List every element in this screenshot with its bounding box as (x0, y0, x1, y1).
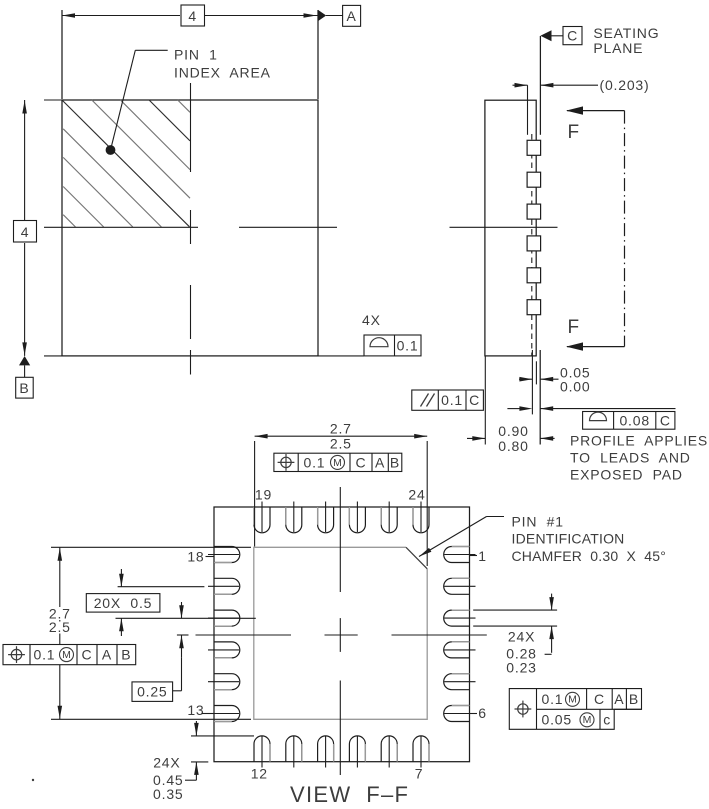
svg-text:A: A (375, 454, 385, 470)
parallelism frame // 0.1 C (412, 390, 484, 410)
datum B flag: triangle + box (19, 356, 30, 365)
svg-text:0.1: 0.1 (397, 338, 419, 354)
pin number 1 with leader (470, 555, 477, 557)
section line F-F dash-dot (624, 111, 626, 347)
profile tolerance frame dome 0.08 C (583, 412, 675, 430)
dimension 2.7/2.5 left: extension lines (51, 546, 251, 548)
bottom view package outline (214, 507, 470, 762)
pin number 6 with leader (470, 713, 477, 715)
pin 1 leader line (111, 50, 136, 150)
svg-text:24X: 24X (508, 629, 535, 645)
top view package body outline (62, 100, 318, 356)
top view: extension line right (317, 10, 319, 99)
svg-text:20X 0.5: 20X 0.5 (94, 595, 153, 611)
svg-text:INDEX AREA: INDEX AREA (174, 65, 271, 81)
svg-text:2.7: 2.7 (330, 421, 352, 437)
svg-text:2.5: 2.5 (330, 436, 352, 452)
dimension 0.25 box (132, 682, 173, 702)
svg-text:TO LEADS AND: TO LEADS AND (570, 450, 691, 466)
svg-text:B: B (629, 691, 639, 707)
stray dot (32, 779, 34, 781)
svg-text:0.1: 0.1 (542, 691, 564, 707)
dimension 0.05/0.00 standoff (519, 378, 532, 380)
svg-text:IDENTIFICATION: IDENTIFICATION (512, 531, 625, 547)
svg-text:0.90: 0.90 (498, 423, 528, 439)
seating plane line lower segment (539, 350, 541, 445)
left dimension 4 box (14, 221, 37, 243)
left dimension 4: extension lines (44, 99, 62, 101)
top view vertical center line (190, 83, 192, 172)
svg-text:24X: 24X (153, 755, 180, 771)
4X profile feature frame (dome 0.1) (364, 335, 421, 356)
svg-text:M: M (333, 457, 342, 469)
svg-text:M: M (583, 714, 592, 726)
bottom edge extension line for 4X callout (318, 355, 364, 357)
svg-text:PROFILE APPLIES: PROFILE APPLIES (570, 433, 708, 449)
svg-text:PLANE: PLANE (593, 40, 643, 56)
svg-text:A: A (614, 691, 624, 707)
svg-text:0.25: 0.25 (137, 683, 167, 699)
svg-text:EXPOSED PAD: EXPOSED PAD (570, 467, 683, 483)
short center tick between faces (535, 361, 537, 384)
svg-text:0.1: 0.1 (441, 392, 463, 408)
top view: extension line left (datum dim 4) (61, 10, 63, 99)
svg-text:7: 7 (415, 766, 424, 782)
pin 1 chamfer edge (406, 547, 427, 569)
svg-text:SEATING: SEATING (593, 25, 659, 41)
bottom row terminals pins 12-7 (254, 736, 270, 762)
svg-text:C: C (660, 412, 671, 428)
side view hidden dashed line (lead plane) (531, 134, 533, 356)
svg-text:B: B (19, 380, 29, 396)
svg-text:4X: 4X (362, 312, 381, 328)
dimension 0.90/0.80 overall thickness (467, 437, 485, 439)
dimension 4 (horizontal width) line with arrows (62, 15, 180, 17)
dimension (0.203) (513, 84, 528, 86)
svg-text:B: B (121, 647, 131, 663)
top row terminals pins 19-24 (254, 507, 270, 533)
datum C flag: triangle + leader + box + SEATING PLANE text (540, 30, 551, 41)
svg-text:0.1: 0.1 (304, 454, 326, 470)
svg-text:0.00: 0.00 (560, 379, 590, 395)
dimension 0.25: arrows and leader (181, 602, 183, 618)
svg-text:0.80: 0.80 (498, 438, 528, 454)
section arrow F lower (567, 346, 625, 348)
svg-text:(0.203): (0.203) (600, 77, 650, 93)
left dimension 4: dimension line and arrows (24, 100, 26, 220)
dimension 20X 0.5 pitch: reference lines and arrows (118, 586, 205, 588)
dimension 2.7/2.5 left: line, arrows, text (59, 547, 61, 719)
svg-text:1: 1 (478, 548, 487, 564)
svg-text:B: B (390, 454, 400, 470)
svg-text:F: F (568, 317, 580, 338)
lead bottom face extension line (531, 350, 533, 414)
svg-text:2.5: 2.5 (49, 619, 71, 635)
svg-text:4: 4 (21, 224, 30, 240)
seating plane line upper segment (539, 36, 541, 135)
svg-text:A: A (102, 647, 112, 663)
svg-text:18: 18 (187, 549, 204, 565)
svg-text:A: A (347, 8, 357, 24)
svg-text:M: M (568, 694, 577, 706)
exposed pad outline with pin1 chamfer (254, 547, 427, 719)
section arrow F upper (567, 110, 625, 112)
side view horizontal center line (450, 226, 558, 228)
side view body outline (485, 100, 536, 356)
svg-text:VIEW F–F: VIEW F–F (290, 782, 409, 807)
dimension 2.7/2.5 top: extension lines (254, 441, 256, 547)
svg-text:0.05: 0.05 (542, 711, 572, 727)
right column terminals pins 1-6 (444, 547, 470, 563)
dimension 24X 0.45/0.35 lead length (191, 735, 254, 737)
left column terminals pins 18-13 (214, 547, 240, 563)
svg-text:M: M (62, 649, 71, 661)
svg-text:6: 6 (478, 705, 487, 721)
top view horizontal center line (44, 226, 198, 228)
svg-text:CHAMFER 0.30 X 45°: CHAMFER 0.30 X 45° (512, 548, 667, 564)
datum A flag: filled triangle + leader + box (318, 10, 326, 21)
dimension 2.7/2.5 top: line, arrows, text (255, 435, 428, 437)
svg-text:0.1: 0.1 (34, 647, 56, 663)
svg-text:24: 24 (408, 487, 425, 503)
svg-text:0.08: 0.08 (619, 412, 649, 428)
dimension 20X 0.5 box (86, 594, 160, 613)
svg-text:C: C (594, 691, 605, 707)
svg-text:C: C (82, 647, 93, 663)
pin 1 marker dot (106, 145, 116, 155)
svg-text:PIN 1: PIN 1 (174, 47, 218, 63)
combined position frame pos 0.1M CAB / 0.05M c (509, 689, 641, 730)
dimension 24X 0.28/0.23 lead width: extension lines (473, 609, 557, 611)
position frame left: pos 0.1 M C A B (3, 645, 136, 665)
svg-text:4: 4 (188, 8, 197, 24)
pin #1 identification note with leader arrow (487, 516, 505, 518)
svg-text:PIN #1: PIN #1 (512, 514, 564, 530)
dimension 4 basic-dimension box (181, 5, 205, 26)
svg-text:19: 19 (255, 487, 272, 503)
profile tolerance leader arrows (507, 408, 520, 410)
svg-text:C: C (356, 454, 367, 470)
svg-text:F: F (568, 122, 580, 143)
pin 1 index area hatch lines (92, 100, 190, 198)
side view leads (6 terminal rectangles) (527, 140, 541, 155)
position frame top: pos 0.1 M C A B (274, 453, 402, 471)
svg-text:C: C (567, 28, 578, 44)
bottom view center lines with crosshair (339, 487, 341, 592)
svg-text:C: C (469, 392, 480, 408)
extension line package top face (side view bottom dims) (484, 356, 486, 445)
svg-text:13: 13 (187, 702, 204, 718)
svg-text:c: c (603, 711, 611, 727)
svg-text:12: 12 (251, 766, 268, 782)
svg-text:0.35: 0.35 (153, 786, 183, 802)
extension line of lead face (0.203 dim) (527, 85, 529, 135)
svg-text:0.23: 0.23 (506, 660, 536, 676)
